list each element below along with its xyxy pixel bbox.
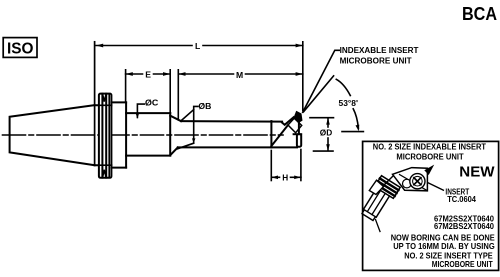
angle 53 line — [304, 76, 334, 112]
ext E left — [125, 70, 127, 102]
head joint line — [270, 121, 272, 147]
collar top edge — [111, 101, 126, 103]
dim M line — [178, 73, 233, 75]
svg-text:67M2BS2XT0640: 67M2BS2XT0640 — [434, 222, 494, 231]
svg-text:ØD: ØD — [320, 128, 332, 138]
arrow E left — [126, 72, 133, 76]
svg-text:ØC: ØC — [145, 98, 158, 107]
head diagonal — [271, 125, 288, 146]
bar top edge — [181, 120, 282, 123]
svg-text:MICROBORE UNIT: MICROBORE UNIT — [432, 259, 494, 269]
svg-text:MICROBORE UNIT: MICROBORE UNIT — [340, 55, 413, 65]
arrow OD up — [326, 118, 330, 125]
head end face — [298, 120, 300, 135]
svg-text:TC.0604: TC.0604 — [447, 195, 476, 204]
flange outline — [99, 94, 112, 178]
angle arc top — [336, 79, 350, 95]
ext H right — [300, 150, 302, 181]
flange v-groove line 3 — [108, 94, 110, 178]
seat bottom step — [294, 133, 302, 135]
arrow L right — [296, 44, 303, 48]
neck bottom edge — [95, 164, 112, 166]
taper shank cone — [10, 105, 95, 165]
insert body diamond — [288, 118, 302, 133]
cylinder C bottom edge — [126, 155, 170, 157]
sketch head — [393, 168, 428, 191]
dim E line — [126, 73, 143, 75]
bar bottom edge — [178, 146, 297, 148]
flange top notch — [103, 94, 107, 102]
sketch tip — [424, 165, 434, 175]
flange v-groove line 2 — [105, 94, 107, 178]
svg-text:E: E — [145, 69, 151, 79]
centerline — [3, 134, 284, 136]
svg-text:ØB: ØB — [198, 102, 211, 111]
head shoulder notch — [282, 117, 294, 125]
svg-text:UP TO 16MM DIA. BY USING: UP TO 16MM DIA. BY USING — [393, 241, 495, 251]
arrow L left — [96, 44, 103, 48]
collar step face — [125, 102, 127, 167]
angle arc bottom — [353, 109, 358, 129]
head inner diagonal — [400, 175, 428, 191]
svg-text:H: H — [282, 173, 288, 182]
dim L line — [96, 45, 192, 47]
leader indexable insert — [303, 50, 340, 112]
sketch screw inner — [413, 176, 423, 186]
leader OB — [194, 106, 198, 142]
info box frame — [363, 141, 499, 270]
pilot nose — [297, 134, 301, 147]
angle ref line — [342, 131, 363, 133]
arrow angle arc — [356, 125, 360, 132]
ISO box — [3, 38, 37, 58]
svg-text:M: M — [236, 70, 243, 80]
gauge line / L extension — [94, 42, 96, 166]
OB slant top — [182, 110, 194, 121]
sketch clamp wedge — [369, 180, 383, 194]
arrow E right — [163, 72, 170, 76]
leader OC — [137, 104, 144, 117]
svg-text:ISO: ISO — [7, 41, 34, 58]
ext E right — [169, 70, 171, 113]
sketch shank group — [359, 176, 400, 224]
arrow H right — [294, 176, 301, 180]
chamfer top — [170, 116, 181, 121]
svg-text:L: L — [195, 41, 200, 51]
screw cross — [414, 178, 421, 185]
insert dark blob — [294, 111, 303, 124]
flange v-groove line 1 — [101, 94, 103, 178]
sketch screw outer — [410, 174, 425, 189]
neck top edge — [95, 104, 112, 106]
dim H line — [271, 176, 279, 178]
svg-text:NEW: NEW — [459, 164, 494, 180]
leader insert — [428, 183, 445, 191]
chamfer bottom — [170, 147, 178, 155]
svg-text:53°8': 53°8' — [339, 98, 359, 108]
OB slant bottom — [177, 143, 193, 149]
arrow M right — [296, 72, 303, 76]
cylinder C end face — [169, 113, 171, 156]
svg-text:BCA: BCA — [462, 3, 497, 24]
ext right L M — [302, 42, 304, 111]
arrow M left — [178, 72, 185, 76]
flange inner horizontals — [99, 104, 112, 106]
arrow OB down — [192, 138, 195, 143]
svg-text:INDEXABLE INSERT: INDEXABLE INSERT — [340, 45, 420, 55]
collar bottom edge — [111, 167, 126, 169]
sketch tail — [376, 220, 381, 232]
svg-text:MICROBORE UNIT: MICROBORE UNIT — [396, 152, 463, 161]
sketch head joint line — [382, 176, 394, 188]
ext OD bottom — [314, 150, 334, 152]
arrow OD down — [326, 144, 330, 151]
flange bottom notch — [103, 170, 107, 178]
cylinder C top edge — [126, 112, 170, 114]
ext M left — [177, 70, 179, 120]
ext OD top — [310, 117, 334, 119]
sketch hub — [403, 179, 412, 188]
arrow OC down — [136, 114, 139, 119]
svg-text:NO. 2 SIZE INDEXABLE INSERT: NO. 2 SIZE INDEXABLE INSERT — [373, 143, 486, 152]
arrows — [96, 44, 359, 180]
dim OD line — [327, 119, 329, 127]
arrow H left — [271, 176, 278, 180]
ext H left — [270, 151, 272, 181]
